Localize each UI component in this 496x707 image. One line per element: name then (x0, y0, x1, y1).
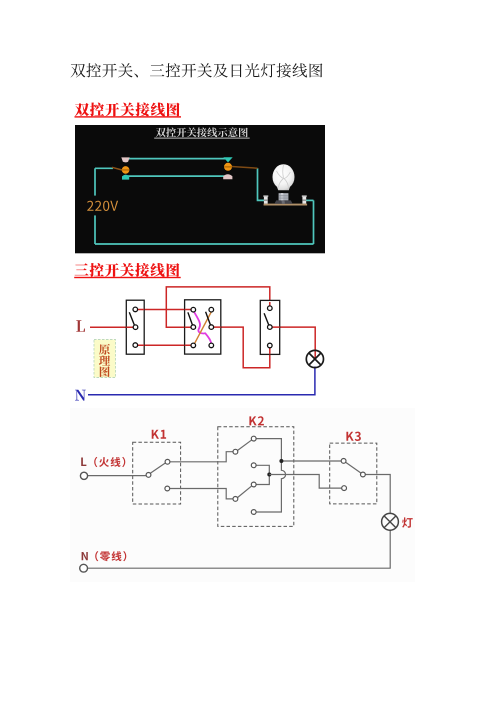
wire K1 top throw to K2 upper common (170, 452, 233, 462)
lamp left terminal block (264, 196, 268, 203)
bottom diagram background (70, 408, 415, 582)
wire L terminal to K1 common (88, 475, 146, 477)
dashed box K1 (133, 442, 181, 504)
wire: switch2 common to lamp (258, 168, 265, 200)
label 灯 (402, 517, 413, 527)
wire lamp to N terminal (88, 530, 390, 568)
SW2 magenta crossover link (194, 312, 211, 343)
SW2 left-bottom terminal (191, 343, 196, 348)
label L（火线） (81, 458, 86, 467)
原理图 tag box (94, 340, 116, 378)
label K2 (249, 416, 264, 425)
K1 top throw terminal (165, 459, 170, 464)
wire: source to switch1 common (95, 167, 113, 169)
wire: source left vertical (94, 168, 96, 244)
wire K2 mid throws tie (256, 465, 269, 484)
wire lamp to N (blue) (88, 367, 315, 395)
light bulb (272, 164, 294, 204)
wire SW2 right-middle to SW3 bottom (211, 327, 269, 368)
document title 双控开关、三控开关及日光灯接线图 (71, 63, 323, 77)
L input terminal (80, 472, 87, 479)
dark wiring image background (75, 125, 325, 253)
wire vertical riser and top run to SW3 (166, 287, 269, 327)
wire K2 upper top-throw down with hop over crossbar (256, 439, 286, 512)
dark image title 双控开关接线示意图 (white) (156, 127, 248, 137)
label L (76, 320, 85, 332)
SW2 left-top terminal (191, 307, 196, 312)
K2 upper top-throw terminal (251, 436, 256, 441)
heading1 underline (75, 116, 182, 117)
lamp2 symbol (circle with X) (382, 513, 399, 530)
label N (75, 390, 86, 401)
lamp board (tan) (264, 204, 308, 206)
dashed box K2 (218, 427, 294, 527)
wire K3 common to lamp (365, 475, 390, 514)
K3 bottom-left terminal (342, 486, 347, 491)
switch2 top terminal (cyan triangle) (223, 157, 232, 162)
heading 双控开关接线图 (red) (75, 103, 180, 117)
switch2 bottom terminal (pink dome) (223, 174, 232, 179)
tag text 原 (99, 344, 110, 355)
switch2 common terminal (orange ball) (224, 163, 232, 171)
label 220V (orange) (87, 201, 118, 211)
wire: lamp right vertical (313, 200, 315, 244)
SW1 middle terminal (133, 325, 138, 330)
SW2 left-middle terminal (191, 325, 196, 330)
wire junction to K3 top-left (281, 460, 341, 462)
wire K1 bottom throw to K2 lower common (170, 489, 233, 499)
switch1 lever wire (orange) (112, 167, 122, 170)
switch2 lever wire (orange) (232, 167, 258, 169)
K1 bottom throw terminal (165, 486, 170, 491)
K2 upper common terminal (233, 449, 238, 454)
K2 lower common terminal (233, 497, 238, 502)
K3 common terminal (361, 472, 366, 477)
wire: traveller bottom between switches (124, 175, 231, 177)
label （火线） (94, 457, 125, 467)
wire SW3 middle to lamp (270, 327, 315, 358)
junction dot B (267, 473, 271, 477)
K2 lower bottom-throw terminal (251, 510, 256, 515)
wire stubs into SW3 (270, 302, 280, 354)
K3 top-left terminal (341, 459, 346, 464)
switch1 top terminal (pink bowl) (121, 157, 129, 162)
switch box SW2 (intermediate) (185, 300, 221, 354)
lamp right terminal block (302, 196, 306, 203)
K2 upper bottom-throw terminal (251, 463, 256, 468)
switch box SW1 (126, 300, 144, 354)
switch1 bottom terminal (cyan dome) (122, 175, 129, 180)
K3 lever (346, 462, 361, 473)
SW1 top terminal (133, 307, 138, 312)
SW2 orange crossover link (194, 312, 211, 345)
220V label backing (covers wire) (89, 196, 120, 216)
K1 common terminal (146, 473, 151, 478)
SW2 right lever (206, 312, 211, 325)
wire stub L into SW1 (126, 310, 144, 346)
tag text 理 (99, 355, 110, 365)
label K3 (346, 432, 361, 441)
wire SW1 top to SW2 left-top (135, 309, 193, 311)
SW2 right-middle terminal (209, 325, 214, 330)
dashed box K3 (330, 443, 377, 504)
SW3 bottom terminal (268, 343, 273, 348)
wire: lamp right terminal to vertical (305, 199, 313, 201)
wire SW1 bottom to SW2 left-bottom (135, 344, 193, 346)
SW3 top terminal (268, 306, 273, 311)
tag text 图 (100, 366, 110, 377)
SW2 left lever (188, 312, 193, 325)
K1 lever (150, 463, 165, 473)
heading2 underline (74, 277, 181, 278)
lamp symbol (circle with X) (306, 350, 323, 367)
dark image title underline (154, 138, 250, 139)
wire crossbar to K3 bottom-left (269, 475, 341, 489)
SW1 bottom terminal (133, 343, 138, 348)
SW2 right-bottom terminal (209, 343, 214, 348)
SW1 lever (129, 312, 134, 325)
label K1 (152, 430, 166, 439)
switch1 common terminal (orange ball) (122, 166, 130, 174)
label （零线） (95, 551, 126, 561)
label N（零线） (82, 552, 88, 560)
N input terminal (80, 564, 88, 572)
switch box SW3 (260, 300, 279, 354)
wire stubs into SW2 left (185, 310, 221, 346)
SW3 lever (264, 313, 269, 325)
K2 lower lever (238, 486, 252, 497)
K2 lower top-throw terminal (251, 482, 256, 487)
junction dot A (279, 459, 283, 463)
wire: traveller top between switches (124, 158, 230, 160)
heading 三控开关接线图 (red) (75, 263, 180, 277)
SW2 right-top terminal (209, 307, 214, 312)
K2 upper lever (238, 440, 252, 450)
wire L to SW1 common (90, 326, 136, 328)
SW3 middle terminal (268, 325, 273, 330)
wire: source bottom horizontal (95, 243, 314, 245)
